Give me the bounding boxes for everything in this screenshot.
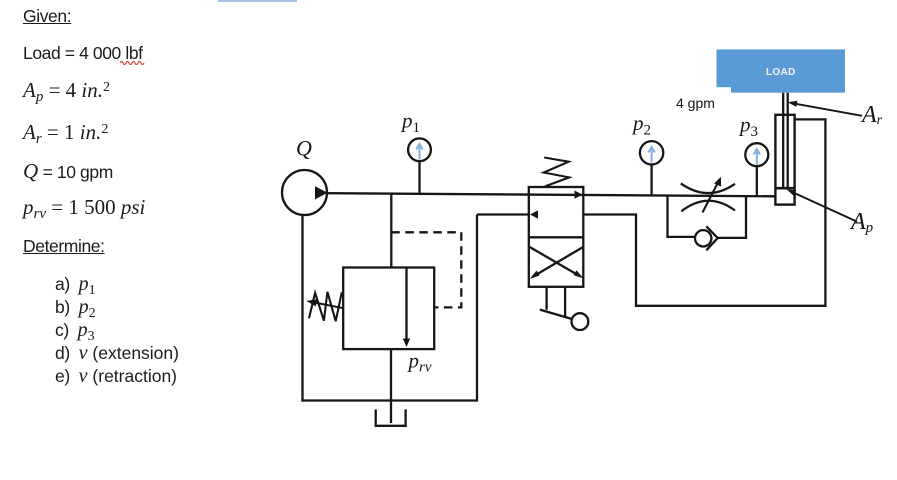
svg-text:4 gpm: 4 gpm [676,95,715,111]
wire DCV return riser [476,215,478,401]
wire pump suction down [301,215,303,402]
flow control valve FC [681,177,735,213]
svg-text:p1: p1 [400,109,420,137]
wire bottom tank return [301,399,478,401]
wire relief valve supply drop [390,194,392,268]
DCV directional valve [529,158,589,331]
svg-text:p3: p3 [738,113,758,141]
item a p1 [55,273,96,299]
determine heading [23,236,105,256]
pointer Ar [788,101,862,116]
svg-text:prv: prv [407,349,432,376]
wire relief valve to tank [390,349,392,423]
wire DCV right port to cylinder rod side [583,119,825,305]
svg-text:Ap: Ap [849,209,874,236]
gauge P2 [640,141,663,194]
svg-text:Ar: Ar [860,102,883,128]
cylinder body [775,93,794,205]
Ar given line [23,120,108,148]
load block [717,49,846,92]
given heading [23,6,71,26]
top blue strip [218,0,297,2]
wire DCV left port [477,213,529,215]
gauge P1 [408,138,431,193]
item e v retraction [55,365,177,388]
relief valve RV [306,268,434,350]
spellcheck squiggle under lbf [120,59,146,65]
load value line [23,43,143,63]
item c p3 [55,319,95,345]
svg-text:p2: p2 [631,111,651,139]
tank symbol [376,409,406,425]
Ap given line [23,78,110,106]
gauge P3 [745,143,768,196]
item d v extension [55,342,179,365]
svg-text:LOAD: LOAD [766,67,796,78]
check valve bypass [667,196,748,250]
pump P [282,170,328,215]
pilot line dashed [391,232,461,307]
Q given line [23,159,113,183]
prv given line [23,195,145,223]
wire main pressure line pump to cylinder [328,193,776,196]
svg-text:Q: Q [296,136,312,161]
item b p2 [55,296,96,322]
pointer Ap [787,189,857,221]
